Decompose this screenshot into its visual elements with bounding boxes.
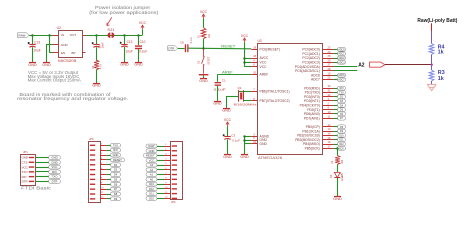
resistor R2 330	[335, 156, 340, 165]
node junction C10	[137, 34, 139, 36]
pin OUT stub	[82, 35, 85, 37]
svg-text:10K: 10K	[208, 34, 211, 39]
wire RAW to IN pin	[29, 35, 52, 37]
connector JP1 FTDI	[21, 155, 36, 186]
svg-text:FTDI Basic: FTDI Basic	[21, 186, 51, 191]
pin JP6 7	[172, 174, 177, 175]
pin JP6 10	[172, 188, 177, 189]
svg-text:U3: U3	[258, 39, 262, 43]
svg-text:DTR: DTR	[168, 46, 175, 50]
wire S1 to GND	[203, 75, 205, 78]
wire to flag GND	[157, 150, 164, 152]
svg-text:1k: 1k	[438, 50, 444, 56]
svg-text:0.1uF: 0.1uF	[214, 88, 226, 92]
ground below C13	[29, 62, 36, 64]
svg-text:A0: A0	[150, 177, 154, 181]
net flag D12	[338, 142, 346, 146]
net flag D10	[338, 134, 346, 138]
supply VCC at regulator output	[142, 29, 144, 35]
svg-text:ADC7: ADC7	[338, 79, 345, 82]
net flag D7	[338, 116, 346, 120]
pin JP9 1	[90, 145, 95, 146]
pin JP9 10	[90, 188, 95, 189]
resistor R3 1k	[431, 66, 433, 70]
svg-text:GND: GND	[213, 102, 222, 106]
svg-text:Green: Green	[340, 173, 344, 181]
svg-text:D13: D13	[149, 182, 154, 186]
svg-text:Q1: Q1	[238, 86, 242, 90]
svg-text:10uF: 10uF	[33, 48, 41, 52]
svg-text:C10: C10	[140, 40, 146, 44]
svg-text:JP6: JP6	[171, 200, 176, 204]
net flag DTR	[168, 46, 178, 51]
net flag D3	[111, 168, 121, 172]
svg-text:ADC0: ADC0	[338, 48, 345, 51]
pin PC3(ADC3) 26	[323, 62, 333, 64]
net flag RESET	[144, 154, 158, 158]
wire junction to C10	[138, 35, 140, 45]
net flag A1	[146, 173, 157, 177]
pin GND stub	[53, 44, 59, 46]
svg-text:RESET: RESET	[221, 44, 235, 48]
pin JP6 4	[172, 160, 177, 161]
pin AGND 3	[251, 136, 257, 138]
wire to flag RXI	[106, 150, 110, 152]
pointer arrow A2	[370, 62, 385, 67]
svg-text:D7: D7	[114, 187, 118, 191]
pin JP6 2	[172, 150, 177, 151]
supply VCC for R1	[202, 14, 205, 18]
wire to net flag	[333, 53, 337, 55]
capacitor C10 0.1uF	[135, 45, 142, 46]
svg-text:TXO: TXO	[339, 92, 344, 94]
capacitor C8 0.1uF	[185, 44, 186, 52]
wire Q1 pin1 to PB6	[238, 91, 240, 93]
IC U3 ATMEGA328	[258, 44, 323, 155]
capacitor C1 0.1uF	[215, 82, 221, 83]
wire to flag A3	[157, 165, 164, 167]
wire VCC to C3	[227, 126, 229, 136]
wire to flag D7	[106, 189, 110, 191]
node junction AGND	[243, 135, 245, 137]
net flag RAW	[146, 144, 157, 148]
wire to flag RESET	[106, 159, 110, 161]
wire VCC rail down	[244, 42, 246, 66]
svg-text:GND: GND	[42, 63, 51, 67]
net flag D3	[338, 99, 346, 103]
resonator plates redraw	[238, 90, 240, 101]
wire to net flag	[333, 75, 337, 77]
svg-text:GND: GND	[22, 156, 28, 160]
net flag D4	[111, 173, 121, 177]
svg-text:ADC2: ADC2	[338, 57, 345, 60]
capacitor C3 0.1uF	[224, 136, 230, 138]
wire SCK to R2	[337, 148, 339, 155]
net flag D6	[338, 112, 346, 116]
wire to AVCC pin	[244, 58, 251, 60]
pin JP9 7	[90, 174, 95, 175]
net flag D12	[146, 187, 157, 191]
svg-text:TXO: TXO	[113, 143, 118, 147]
pin PB1(OC1A) 13	[323, 131, 333, 133]
wire to net flag	[333, 92, 337, 94]
wire to flag D11	[157, 193, 164, 195]
net flag D9	[111, 197, 121, 201]
wire to flag D13	[157, 184, 164, 186]
net flag D11	[146, 192, 157, 196]
wire to flag GND	[36, 162, 49, 164]
svg-text:C3: C3	[231, 133, 235, 137]
net flag ADC3	[338, 60, 346, 64]
net flag A3	[146, 163, 157, 167]
wire to flag A0	[157, 179, 164, 181]
wire to flag D9	[106, 198, 110, 200]
wire to net flag	[333, 58, 337, 60]
pin JP6 11	[172, 193, 177, 194]
svg-text:SJ1: SJ1	[107, 28, 114, 32]
svg-text:VCC: VCC	[139, 21, 147, 25]
pin JP6 5	[172, 164, 177, 165]
ground below R9	[93, 83, 100, 85]
pin PD2(INT0) 32	[323, 96, 333, 98]
svg-text:RXI: RXI	[113, 148, 118, 152]
svg-text:D2: D2	[114, 163, 118, 167]
wire to net flag	[333, 131, 337, 133]
svg-text:GND: GND	[223, 155, 232, 159]
pin PD7(AIN1) 11	[323, 118, 333, 120]
pin PC4(ADC4/SDA) 27	[323, 66, 333, 68]
svg-text:VCC: VCC	[52, 165, 58, 169]
net flag TXO	[49, 175, 61, 179]
wire R2 to LED	[337, 165, 339, 173]
svg-text:PB7(XTAL2/TOSC2): PB7(XTAL2/TOSC2)	[260, 99, 290, 103]
pin PB7(XTAL2/TOSC2) 8	[251, 100, 257, 102]
svg-text:(for low power applications): (for low power applications)	[89, 10, 159, 15]
pin IN stub	[53, 35, 59, 37]
pin PD0(RXD) 30	[323, 88, 333, 90]
svg-text:RESET: RESET	[207, 56, 210, 65]
net flag D9	[338, 129, 346, 133]
pin PB0(ICP) 12	[323, 126, 333, 128]
ground below LED	[334, 196, 341, 198]
svg-text:VCC: VCC	[200, 10, 208, 14]
wire to flag D12	[157, 188, 164, 190]
svg-text:JP9: JP9	[89, 137, 94, 141]
svg-text:330: 330	[341, 159, 344, 164]
ground below regulator GND	[43, 62, 50, 64]
net flag D8	[111, 192, 121, 196]
ground below Q1	[223, 108, 230, 110]
net flag GND	[111, 153, 121, 157]
svg-text:C13: C13	[127, 40, 133, 44]
net flag A2	[146, 168, 157, 172]
svg-text:RESET: RESET	[146, 154, 155, 158]
svg-text:VCC: VCC	[149, 158, 155, 162]
svg-text:Max Current Output 150mA: Max Current Output 150mA	[28, 78, 81, 83]
resistor R9	[94, 60, 99, 70]
svg-text:RXI: RXI	[340, 88, 344, 90]
svg-text:C13: C13	[34, 40, 40, 44]
pin JP9 9	[90, 184, 95, 185]
net flag RXI	[338, 86, 346, 90]
svg-text:RXI: RXI	[52, 170, 57, 174]
pin PD3(INT1) 1	[323, 100, 333, 102]
net flag D13	[146, 182, 157, 186]
net flag D5	[338, 108, 346, 112]
wire to net flag	[333, 100, 337, 102]
wire OUT to VCC corner	[86, 35, 143, 37]
connector JP6	[171, 142, 183, 200]
pin VCC 6	[251, 66, 257, 68]
svg-text:SCK: SCK	[339, 148, 344, 150]
wire PC4(ADC4/SDA) I2C	[333, 66, 357, 68]
svg-text:VCC: VCC	[241, 34, 249, 38]
svg-text:GND: GND	[333, 197, 342, 201]
wire C3 to GND	[227, 139, 229, 154]
wire to net flag	[333, 105, 337, 107]
svg-text:DTR: DTR	[52, 179, 58, 183]
svg-text:ADC1: ADC1	[338, 53, 345, 56]
net flag D2	[338, 95, 346, 99]
svg-text:D5: D5	[114, 177, 118, 181]
svg-text:ADC3: ADC3	[338, 61, 345, 64]
wire R9 to GND	[96, 69, 98, 83]
net flag VCC	[146, 158, 157, 162]
svg-text:D3: D3	[114, 168, 118, 172]
capacitor C9	[93, 44, 99, 46]
wire LED to GND	[337, 178, 339, 196]
pin JP9 12	[90, 198, 95, 199]
pin PC1(ADC1) 24	[323, 53, 333, 55]
svg-text:GND: GND	[240, 155, 249, 159]
wire to net flag	[333, 113, 337, 115]
svg-text:D3: D3	[329, 174, 333, 178]
ground below C10	[135, 62, 142, 64]
svg-text:DTR: DTR	[22, 180, 28, 184]
svg-text:D10: D10	[339, 135, 344, 137]
svg-text:4.7K: 4.7K	[100, 64, 103, 69]
resistor R1 10K	[201, 28, 206, 39]
net flag D10	[146, 196, 157, 200]
pin GND 21	[251, 143, 257, 145]
pin PD1(TXD) 31	[323, 92, 333, 94]
svg-text:GND: GND	[61, 43, 69, 47]
switch S1 reset	[203, 48, 205, 56]
svg-text:IN: IN	[61, 33, 64, 37]
svg-text:PB5(SCK): PB5(SCK)	[305, 147, 320, 151]
svg-text:D6: D6	[114, 182, 118, 186]
net flag TXO	[111, 143, 121, 147]
net flag RXI	[111, 148, 121, 152]
wire junction to EN pin	[49, 35, 51, 53]
wire to net flag	[333, 62, 337, 64]
wire Raw to R4	[431, 23, 433, 31]
net flag GND	[146, 149, 157, 153]
svg-text:A2: A2	[358, 62, 365, 68]
IC U2 MIC5205 regulator	[59, 31, 83, 58]
svg-text:D8: D8	[114, 192, 118, 196]
node junction output cap branch	[95, 34, 97, 36]
pin PC0(ADC0) 23	[323, 49, 333, 51]
svg-text:GND: GND	[28, 63, 37, 67]
svg-text:GND: GND	[149, 149, 155, 153]
svg-text:A3: A3	[150, 163, 154, 167]
svg-text:D11: D11	[149, 192, 154, 196]
connector JP9	[89, 142, 101, 203]
svg-text:0.1uF: 0.1uF	[190, 37, 193, 44]
svg-text:RAW: RAW	[149, 144, 156, 148]
svg-text:GND: GND	[51, 156, 57, 160]
svg-text:GND: GND	[260, 142, 268, 146]
net flag VCC	[49, 165, 61, 169]
svg-text:AREF: AREF	[222, 71, 233, 75]
net flag D5	[111, 177, 121, 181]
svg-text:GND: GND	[222, 109, 231, 113]
pin PB2(SS/OC1B) 14	[323, 135, 333, 137]
wire to flag D2	[106, 164, 110, 166]
svg-text:JP1: JP1	[23, 150, 28, 154]
pin ADC6 19	[323, 75, 333, 77]
wire to flag RAW	[157, 146, 164, 148]
svg-text:GND: GND	[134, 63, 143, 67]
wire to flag RXI	[36, 171, 49, 173]
svg-text:U2: U2	[57, 26, 61, 30]
wire C9 to R9	[96, 47, 98, 61]
net flag A0	[146, 177, 157, 181]
wire Q1 pin3 to PB7	[244, 100, 252, 102]
svg-text:OUT: OUT	[70, 33, 77, 37]
svg-text:VCC: VCC	[224, 118, 232, 122]
svg-text:D9: D9	[114, 197, 118, 201]
net flag ADC6	[338, 73, 346, 77]
wire Q1 pin2 to GND	[227, 96, 239, 98]
net flag RAW	[18, 33, 30, 38]
wire to flag TXO	[36, 176, 49, 178]
pin JP9 2	[90, 149, 95, 150]
net flag GND	[49, 156, 61, 160]
net flag ADC1	[338, 52, 346, 56]
wire to flag RESET	[157, 155, 164, 157]
pin PD5(T1) 9	[323, 109, 333, 111]
wire to VCC pin 4	[244, 62, 251, 64]
svg-text:VCC: VCC	[22, 165, 28, 169]
resistor R4 1k	[429, 44, 434, 55]
svg-text:GND: GND	[113, 153, 119, 157]
svg-text:A1: A1	[150, 173, 154, 177]
net flag D4	[338, 103, 346, 107]
wire to flag A1	[157, 174, 164, 176]
wire C1 to GND	[217, 86, 219, 101]
supply VCC for C3	[226, 122, 229, 126]
net flag ADC7	[338, 78, 346, 82]
wire AREF	[217, 74, 219, 82]
net flag D2	[111, 163, 121, 167]
node junction RESET	[202, 47, 204, 49]
wire to flag GND	[36, 157, 49, 159]
svg-text:D11: D11	[339, 140, 344, 142]
wire to flag D8	[106, 194, 110, 196]
wire to net flag	[333, 139, 337, 141]
pin PD6(AIN0) 10	[323, 113, 333, 115]
node divider junction	[431, 63, 433, 65]
wire to flag D10	[157, 198, 164, 200]
pin JP6 1	[172, 145, 177, 146]
pin PC5(ADC5/SCL) 28	[323, 70, 333, 72]
svg-text:GND: GND	[120, 63, 129, 67]
pin GND 5	[251, 140, 257, 142]
pin PB6(XTAL1/TOSC1) 7	[251, 91, 257, 93]
svg-text:C8: C8	[180, 41, 184, 45]
wire to flag VCC	[157, 160, 164, 162]
pin EN stub	[53, 52, 59, 54]
pin ADC7 22	[323, 79, 333, 81]
pin PB5(SCK) 17	[323, 148, 333, 150]
pin JP6 3	[172, 155, 177, 156]
ground below C12	[121, 62, 128, 64]
pin PC6(/RESET) 29	[251, 49, 257, 51]
wire to flag GND	[106, 155, 110, 157]
pin PC2(ADC2) 25	[323, 58, 333, 60]
svg-text:ADC6: ADC6	[338, 74, 345, 77]
pin PB3(MOSI/OC2) 15	[323, 139, 333, 141]
wire to net flag	[333, 118, 337, 120]
pin JP9 4	[90, 159, 95, 160]
pin JP6 12	[172, 198, 177, 199]
wire to VCC pin 6	[244, 66, 251, 68]
net flag DTR	[49, 180, 61, 184]
svg-text:PD7(AIN1): PD7(AIN1)	[304, 116, 320, 120]
pin PD4(XCK/T0) 2	[323, 105, 333, 107]
svg-text:Raw(Li-poly Batt): Raw(Li-poly Batt)	[417, 18, 457, 24]
svg-text:S1: S1	[196, 60, 200, 64]
wire to net flag	[333, 88, 337, 90]
wire junction to C12	[124, 35, 126, 44]
net flag ADC0	[338, 48, 346, 52]
wire to flag D4	[106, 174, 110, 176]
svg-text:resonator frequency and regula: resonator frequency and regulator voltag…	[17, 96, 128, 101]
wire to flag D6	[106, 184, 110, 186]
svg-text:PB6(XTAL1/TOSC1): PB6(XTAL1/TOSC1)	[260, 89, 290, 93]
wire to net flag	[333, 49, 337, 51]
LED D3 green	[334, 172, 340, 177]
node junction EN branch	[48, 34, 50, 36]
svg-text:PC6(/RESET): PC6(/RESET)	[260, 48, 281, 52]
pin AVCC 18	[251, 58, 257, 60]
wire A2 to divider node	[385, 64, 432, 66]
svg-text:GND: GND	[51, 160, 57, 164]
wire to net flag	[333, 126, 337, 128]
capacitor C12 10uF	[121, 44, 127, 46]
pin AREF 20	[251, 74, 257, 76]
svg-text:ATMEGA328: ATMEGA328	[258, 156, 282, 160]
supply VCC for AVCC/VCC pins	[243, 38, 246, 42]
svg-text:GND: GND	[92, 84, 101, 88]
wire to net flag	[333, 144, 337, 146]
wire to net flag	[333, 96, 337, 98]
net flag RXI	[49, 170, 61, 174]
net flag D7	[111, 187, 121, 191]
svg-text:D12: D12	[149, 187, 154, 191]
svg-text:BP: BP	[72, 51, 76, 55]
svg-text:D4: D4	[114, 173, 118, 177]
svg-text:1k: 1k	[438, 76, 444, 82]
net flag RESET	[111, 158, 125, 162]
svg-text:10uF: 10uF	[100, 42, 104, 48]
wire to flag D5	[106, 179, 110, 181]
svg-text:VCC: VCC	[260, 65, 268, 69]
svg-text:RXI: RXI	[22, 175, 27, 179]
net flag ADC2	[338, 56, 346, 60]
